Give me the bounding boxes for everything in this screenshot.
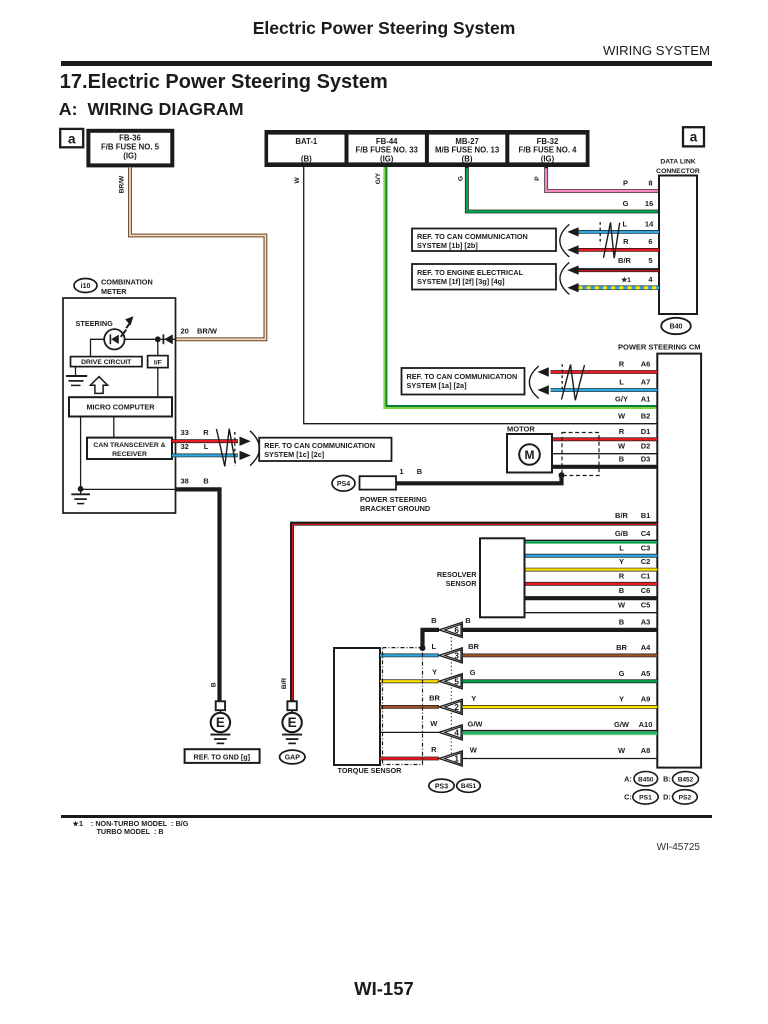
svg-text:B/R: B/R (618, 256, 632, 265)
label Y (torque right) (471, 694, 476, 703)
svg-text:REF. TO CAN COMMUNICATION: REF. TO CAN COMMUNICATION (264, 441, 375, 450)
svg-text:MB-27: MB-27 (455, 137, 478, 146)
svg-text:5: 5 (648, 256, 652, 265)
connector pin triangle 3 (439, 648, 462, 663)
svg-text:P: P (534, 176, 541, 181)
svg-text:G/Y: G/Y (615, 395, 628, 404)
label Y (torque left) (432, 668, 437, 677)
junction dot (torque shield) (420, 645, 426, 651)
svg-text:REF. TO ENGINE ELECTRICAL: REF. TO ENGINE ELECTRICAL (417, 268, 524, 277)
arrow ref (CAN 1c) on wire R (240, 437, 251, 446)
svg-text:METER: METER (101, 287, 127, 296)
svg-text:DRIVE CIRCUIT: DRIVE CIRCUIT (81, 359, 132, 366)
arrow ref (CAN) on wire R (567, 245, 578, 254)
svg-text:B/R: B/R (281, 678, 288, 690)
label pin 20 / BR/W (181, 327, 218, 336)
svg-text:20: 20 (181, 327, 189, 336)
label B (torque left) (431, 616, 437, 625)
wire R resolver to CM pin C1 (525, 582, 658, 586)
wire W torque sensor (380, 731, 439, 733)
svg-text:C4: C4 (641, 529, 651, 538)
svg-text:(IG): (IG) (380, 154, 394, 163)
wire G/B resolver to CM pin C4 (525, 540, 658, 542)
wire L meter pin 32 (172, 453, 238, 457)
label pin 1 / B (bracket ground) (399, 467, 422, 476)
svg-text:B451: B451 (461, 783, 477, 790)
wire L to CM pin A7 (551, 388, 658, 392)
label Y / pin C2 (CM) (619, 557, 650, 566)
wire R to data link connector pin 6 (578, 248, 659, 252)
motor symbol M (519, 444, 540, 465)
svg-text:R: R (431, 745, 437, 754)
svg-text:W: W (618, 746, 626, 755)
wire G/Y from FB-44 to power steering CM pin A1 (384, 167, 657, 408)
svg-text:REF. TO CAN COMMUNICATION: REF. TO CAN COMMUNICATION (417, 232, 528, 241)
svg-text:R: R (203, 428, 209, 437)
label W / pin D2 (CM) (618, 441, 650, 450)
brace arc (CAN group) (560, 224, 570, 257)
svg-text:BR/W: BR/W (197, 327, 218, 336)
svg-text:SYSTEM [1f] [2f] [3g] [4g]: SYSTEM [1f] [2f] [3g] [4g] (417, 277, 505, 286)
wire L to data link connector pin 14 (578, 230, 659, 234)
svg-text:F/B FUSE NO. 5: F/B FUSE NO. 5 (101, 143, 160, 152)
svg-text:BAT-1: BAT-1 (295, 137, 318, 146)
svg-text:MICRO COMPUTER: MICRO COMPUTER (86, 402, 155, 411)
svg-text:REF. TO GND [g]: REF. TO GND [g] (194, 752, 251, 761)
svg-text:A10: A10 (639, 720, 653, 729)
svg-text:D1: D1 (641, 427, 651, 436)
wire R to CM pin A6 (551, 370, 658, 374)
svg-text:G: G (619, 669, 625, 678)
junction dot (pin 20 node) (155, 336, 161, 342)
svg-text:B2: B2 (641, 411, 651, 420)
twisted pair dashed line (meter) (234, 432, 236, 466)
label pin 33 / R (181, 428, 210, 437)
svg-text:SENSOR: SENSOR (446, 579, 478, 588)
svg-text:A7: A7 (641, 378, 651, 387)
fuse box MB-27 (429, 135, 505, 164)
svg-text:32: 32 (181, 442, 189, 451)
label MOTOR (507, 424, 535, 433)
svg-text:B/R: B/R (615, 511, 629, 520)
wire B power steering bracket ground (396, 476, 562, 484)
label B / pin A3 (CM) (619, 618, 651, 627)
wire lamp to diode (125, 338, 155, 340)
svg-text:BR: BR (468, 642, 479, 651)
svg-text:W: W (618, 600, 626, 609)
label R / pin 6 (623, 237, 652, 246)
wire I/F to micro computer (157, 368, 159, 398)
svg-text:W: W (294, 177, 301, 184)
svg-text:RECEIVER: RECEIVER (112, 451, 147, 458)
svg-text:A:: A: (624, 774, 632, 783)
svg-text:E: E (216, 715, 225, 730)
svg-text:A4: A4 (641, 643, 651, 652)
wire W resolver to CM pin C5 (525, 612, 658, 614)
twisted pair dashed line (CM) (561, 364, 563, 392)
svg-text:B: B (619, 454, 625, 463)
subsection heading (59, 101, 244, 119)
power steering CM box (657, 354, 701, 768)
connector oval B40 (661, 318, 691, 334)
label pin 32 / L (181, 442, 209, 451)
wire R torque sensor (380, 757, 439, 761)
svg-text:R: R (619, 571, 625, 580)
arrow ref (engine) on wire *1 (567, 283, 578, 292)
svg-text:3: 3 (454, 651, 459, 660)
arrow ref (CAN 1a) on wire R (538, 367, 549, 376)
data link connector box (659, 176, 697, 315)
ref box REF. TO GND [g] (185, 749, 260, 763)
ref box CAN [1c][2c] (259, 438, 391, 461)
svg-text:W: W (430, 719, 438, 728)
svg-text:G/W: G/W (468, 719, 484, 728)
footnote rule (61, 815, 712, 818)
wire BR/W from FB-36 to combination meter pin 20 (130, 167, 265, 339)
svg-text:D3: D3 (641, 454, 651, 463)
svg-text:SYSTEM [1b] [2b]: SYSTEM [1b] [2b] (417, 241, 478, 250)
svg-text:G: G (623, 199, 629, 208)
wire L resolver to CM pin C3 (525, 554, 658, 558)
svg-text:PS2: PS2 (679, 795, 692, 802)
connector legend A: B450 (624, 772, 658, 786)
svg-text:4: 4 (454, 728, 459, 737)
wire G from MB-27 to data link connector pin 16 (467, 167, 659, 212)
brace arc (CAN 1a group) (529, 366, 538, 398)
svg-text:6: 6 (648, 237, 652, 246)
fuse box BAT-1 (268, 135, 344, 164)
wire lamp to drive circuit (91, 339, 105, 356)
label G/W (torque right) (468, 719, 484, 728)
wire R motor to CM pin D1 (552, 437, 657, 441)
label B/R / pin 5 (618, 256, 653, 265)
label Y / pin A9 (CM) (619, 695, 650, 704)
svg-text:PS1: PS1 (639, 795, 652, 802)
ground E (GAP) (282, 701, 302, 743)
svg-text:W: W (618, 411, 626, 420)
svg-text:BR: BR (429, 694, 440, 703)
svg-text:C6: C6 (641, 586, 651, 595)
steering LED lamp (104, 329, 124, 349)
label W (torque left) (430, 719, 438, 728)
svg-text:5: 5 (454, 677, 459, 686)
svg-text:Y: Y (432, 668, 437, 677)
wire drive circuit to ground (75, 367, 77, 376)
connector oval B451 (457, 779, 481, 792)
svg-text:(B): (B) (462, 154, 473, 163)
wire W motor to CM pin D2 (552, 453, 657, 455)
shield dash-dot box (torque sensor) (383, 648, 423, 765)
svg-text:D2: D2 (641, 441, 651, 450)
svg-text:P: P (623, 179, 628, 188)
label G / pin 16 (623, 199, 654, 208)
label POWER STEERING CM (618, 343, 701, 352)
svg-text:B: B (417, 467, 423, 476)
svg-text:a: a (68, 131, 76, 146)
wire B/R from CM pin B1 to GAP ground (292, 524, 657, 701)
svg-text:POWER STEERING CM: POWER STEERING CM (618, 343, 701, 352)
connector pin triangle 6 (439, 622, 462, 637)
motor box (507, 434, 552, 473)
svg-text:B40: B40 (670, 324, 683, 331)
svg-text:A3: A3 (641, 618, 651, 627)
brace arc (CAN 1c group) (250, 431, 260, 466)
svg-text:FB-32: FB-32 (537, 137, 559, 146)
header rule (61, 61, 712, 66)
lamp arrow (indicator) (121, 316, 134, 337)
svg-text:C:: C: (624, 793, 632, 802)
label B/R / pin B1 (CM) (615, 511, 650, 520)
svg-text:C5: C5 (641, 600, 651, 609)
svg-text:SYSTEM [1c] [2c]: SYSTEM [1c] [2c] (264, 450, 325, 459)
combination meter box (63, 298, 176, 513)
svg-text:L: L (619, 543, 624, 552)
label STEERING (76, 319, 114, 328)
label G (vertical) (457, 176, 464, 181)
page header title (0, 20, 768, 38)
svg-text:B: B (619, 618, 625, 627)
svg-text:FB-44: FB-44 (376, 137, 398, 146)
fuse box FB-44 (349, 135, 425, 164)
wire B to CM pin A3 (463, 628, 658, 632)
label COMBINATION METER (101, 277, 153, 296)
label B/R (vertical) (281, 678, 288, 690)
wire G/W to CM pin A10 (463, 731, 658, 735)
wire W from BAT-1 (304, 167, 658, 424)
svg-text:MOTOR: MOTOR (507, 424, 535, 433)
wire W to CM pin A8 (463, 758, 658, 760)
label G/Y / pin A1 (CM) (615, 395, 650, 404)
svg-text:PS3: PS3 (435, 783, 448, 790)
drive circuit box (71, 357, 143, 367)
fuse bus block (265, 130, 590, 167)
wire B/R to data link connector pin 5 (578, 268, 659, 273)
svg-text:L: L (204, 442, 209, 451)
fuse box FB-32 (509, 135, 585, 164)
ground E (meter B wire) (210, 701, 230, 743)
svg-text:G/B: G/B (615, 529, 629, 538)
twisted pair symbol (CM A6/A7) (562, 365, 585, 401)
svg-text:G: G (457, 176, 464, 181)
svg-text:i10: i10 (81, 283, 91, 290)
twisted pair dashed line (DLC) (599, 222, 601, 245)
twisted pair symbol (meter 33/32) (217, 429, 236, 467)
label BR (torque left) (429, 694, 440, 703)
svg-text:1: 1 (454, 755, 459, 764)
svg-text:G/W: G/W (614, 720, 630, 729)
wire B motor to CM pin D3 (552, 465, 657, 469)
svg-text:CONNECTOR: CONNECTOR (656, 168, 700, 175)
connector oval i10 (74, 279, 97, 293)
arrow ref (CAN) on wire L (567, 227, 578, 236)
label TORQUE SENSOR (338, 766, 403, 775)
svg-text:Y: Y (619, 695, 624, 704)
svg-text:B:: B: (663, 774, 671, 783)
wire P from FB-32 to data link connector pin 8 (546, 167, 659, 191)
wire B meter pin 38 to ground E (176, 489, 220, 701)
svg-text:BR/W: BR/W (118, 175, 125, 193)
svg-text:★1: ★1 (621, 276, 631, 284)
figure number (400, 843, 700, 853)
wire Y resolver to CM pin C2 (525, 568, 658, 572)
label G/B / pin C4 (CM) (615, 529, 651, 538)
svg-text:R: R (619, 427, 625, 436)
label G/W / pin A10 (CM) (614, 720, 652, 729)
svg-text:W: W (618, 441, 626, 450)
svg-text:B: B (619, 586, 625, 595)
svg-text:C2: C2 (641, 557, 651, 566)
shield dashed box (motor) (562, 433, 599, 476)
label L / pin 14 (623, 220, 655, 229)
svg-text:R: R (623, 237, 629, 246)
CAN transceiver box (87, 438, 172, 459)
wire micro computer to CAN transceiver (113, 417, 115, 438)
I/F box (148, 356, 168, 368)
svg-text:16: 16 (645, 199, 653, 208)
label R / pin C1 (CM) (619, 571, 651, 580)
label DATA LINK CONNECTOR (656, 159, 700, 176)
svg-text:E: E (288, 715, 297, 730)
label BR/W (vertical) (118, 175, 125, 193)
svg-text:Y: Y (619, 557, 624, 566)
svg-text:C1: C1 (641, 571, 651, 580)
wire BR torque sensor (380, 705, 439, 709)
label B (torque right) (465, 616, 471, 625)
svg-text:A8: A8 (641, 746, 651, 755)
label B (vertical) (211, 682, 218, 687)
ground (meter) (71, 489, 90, 503)
svg-text:M: M (525, 448, 535, 462)
label pin 38 / B (181, 477, 210, 486)
twisted pair symbol (DLC L/R) (604, 222, 620, 258)
label W (torque right) (470, 745, 478, 754)
micro computer box (69, 397, 172, 416)
connector legend D: PS2 (663, 790, 697, 804)
svg-text:COMBINATION: COMBINATION (101, 277, 153, 286)
connector view label a (top left) (60, 129, 83, 147)
svg-text:W: W (470, 745, 478, 754)
junction dot (bracket ground) (559, 472, 565, 478)
arrow ref (CAN 1c) on wire L (240, 451, 251, 460)
svg-text:A1: A1 (641, 395, 651, 404)
svg-text:A5: A5 (641, 669, 651, 678)
svg-text:TORQUE SENSOR: TORQUE SENSOR (338, 766, 403, 775)
connector legend C: PS1 (624, 790, 658, 804)
label POWER STEERING BRACKET GROUND (360, 495, 430, 513)
svg-text:1: 1 (399, 467, 403, 476)
arrow ref (engine) on wire B/R (567, 265, 578, 274)
wire B resolver to CM pin C6 (525, 596, 658, 600)
label L / pin A7 (CM) (619, 378, 650, 387)
label W / pin C5 (CM) (618, 600, 650, 609)
label P / pin 8 (623, 179, 653, 188)
section heading (60, 72, 388, 92)
label P (vertical) (534, 176, 541, 181)
label W / pin B2 (CM) (618, 411, 650, 420)
svg-text:A9: A9 (641, 695, 651, 704)
connector oval PS3 (429, 779, 454, 792)
connector view label a (top right) (683, 127, 704, 146)
arrow up (micro computer) (90, 377, 107, 394)
wire R meter pin 33 (172, 439, 238, 443)
svg-text:I/F: I/F (154, 359, 162, 366)
svg-text:C3: C3 (641, 543, 651, 552)
svg-text:R: R (619, 360, 625, 369)
ref box CAN [1a][2a] (402, 368, 525, 395)
junction dot (meter ground node) (78, 486, 84, 492)
connector pin triangle 1 (439, 751, 462, 766)
svg-text:B: B (431, 616, 437, 625)
label G/Y (vertical) (375, 172, 382, 184)
connector legend B: B452 (663, 772, 698, 787)
wire BR to CM pin A4 (463, 654, 658, 658)
label R / pin A6 (CM) (619, 360, 651, 369)
wire node to I/F (157, 339, 159, 355)
header right label (408, 44, 710, 57)
torque sensor box (334, 648, 380, 765)
svg-text:L: L (623, 220, 628, 229)
svg-text:REF. TO CAN COMMUNICATION: REF. TO CAN COMMUNICATION (407, 372, 518, 381)
svg-text:G/Y: G/Y (375, 172, 382, 184)
page number (0, 980, 768, 999)
svg-text:B452: B452 (678, 777, 694, 784)
svg-text:G: G (470, 668, 476, 677)
arrow ref (CAN 1a) on wire L (538, 385, 549, 394)
wire micro computer to ground node (80, 417, 82, 490)
diode (pin 20) (161, 334, 176, 344)
wire B shield stub (torque) (423, 630, 440, 648)
svg-text:B1: B1 (641, 511, 651, 520)
ref box ENGINE [1f][2f][3g][4g] (412, 264, 556, 290)
svg-text:RESOLVER: RESOLVER (437, 570, 477, 579)
bracket ground connector box (360, 476, 397, 489)
svg-text:B: B (465, 616, 471, 625)
svg-text:POWER STEERING: POWER STEERING (360, 495, 427, 504)
connector pin triangle 4 (439, 725, 462, 740)
svg-text:14: 14 (645, 220, 654, 229)
label BR / pin A4 (CM) (616, 643, 651, 652)
svg-text:Y: Y (471, 694, 476, 703)
svg-text:GAP: GAP (285, 755, 301, 762)
wire L torque sensor (380, 654, 439, 658)
svg-text:BRACKET GROUND: BRACKET GROUND (360, 504, 430, 513)
svg-text:D:: D: (663, 793, 671, 802)
wire Y torque sensor (380, 679, 439, 683)
connector pin triangle 5 (439, 674, 462, 689)
svg-text:L: L (432, 642, 437, 651)
svg-text:DATA LINK: DATA LINK (660, 159, 695, 166)
svg-text:2: 2 (454, 703, 459, 712)
wire *1 (B/G) to data link connector pin 4 (578, 286, 659, 290)
wire Y to CM pin A9 (463, 705, 658, 709)
svg-text:(IG): (IG) (541, 154, 555, 163)
svg-text:33: 33 (181, 428, 189, 437)
svg-text:B: B (211, 682, 218, 687)
svg-text:B450: B450 (638, 776, 654, 783)
svg-text:(B): (B) (301, 154, 312, 163)
label B / pin C6 (CM) (619, 586, 651, 595)
label R / pin D1 (CM) (619, 427, 651, 436)
svg-text:6: 6 (454, 626, 459, 635)
connector dotted line (torque connector) (450, 630, 452, 759)
resolver sensor box (480, 538, 525, 617)
label W (vertical) (294, 177, 301, 184)
svg-text:4: 4 (648, 275, 653, 284)
svg-text:SYSTEM [1a] [2a]: SYSTEM [1a] [2a] (407, 381, 468, 390)
ref box CAN [1b][2b] (412, 229, 556, 252)
brace arc (engine group) (560, 262, 569, 294)
connector oval GAP (280, 750, 305, 764)
